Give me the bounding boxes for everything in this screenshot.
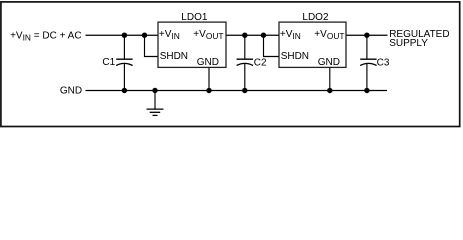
svg-text:+VIN = DC + AC: +VIN = DC + AC [10,31,81,43]
svg-text:GND: GND [318,57,340,68]
svg-text:LDO1: LDO1 [181,12,208,23]
svg-text:GND: GND [197,57,219,68]
svg-text:C3: C3 [377,57,390,68]
svg-text:+VIN: +VIN [159,29,180,41]
svg-text:+VIN: +VIN [280,29,301,41]
svg-text:SHDN: SHDN [281,51,309,62]
svg-text:SHDN: SHDN [160,51,188,62]
svg-text:GND: GND [60,86,82,97]
svg-text:C2: C2 [254,57,267,68]
svg-text:+VOUT: +VOUT [193,29,223,41]
svg-text:C1: C1 [102,57,115,68]
svg-text:+VOUT: +VOUT [314,29,344,41]
svg-text:SUPPLY: SUPPLY [389,38,428,49]
svg-text:LDO2: LDO2 [302,12,329,23]
